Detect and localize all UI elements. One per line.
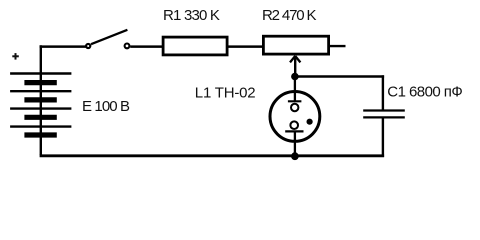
bottom rail wire: [40, 154, 385, 157]
battery thin plate 3: [10, 107, 71, 109]
wire stub right of R2: [329, 45, 346, 47]
potentiometer R2: [262, 7, 329, 77]
lamp top electrode bar: [288, 100, 302, 102]
switch blade: [91, 30, 127, 44]
switch right contact: [125, 44, 130, 49]
battery plus polarity mark: [12, 55, 18, 57]
lamp envelope circle: [270, 92, 320, 142]
svg-text:C1 6800 пФ: C1 6800 пФ: [387, 84, 462, 101]
R2 wiper arrowhead: [290, 56, 295, 62]
battery thick plate 1: [24, 80, 56, 85]
neon lamp L1: [195, 77, 320, 156]
lamp top electrode circle: [291, 104, 298, 111]
battery thick plate 3: [24, 115, 56, 120]
svg-text:L1 TH-02: L1 TH-02: [195, 85, 256, 102]
C1 bottom plate: [363, 116, 405, 118]
lamp bottom electrode circle: [290, 121, 298, 129]
battery center lead (through-line): [40, 45, 42, 155]
lamp bottom electrode bar: [285, 130, 303, 132]
switch left contact: [86, 44, 90, 48]
battery thick plate 2: [24, 97, 56, 102]
battery thin plate 1: [10, 72, 71, 74]
battery thick plate 4: [24, 132, 56, 137]
lamp bottom lead: [294, 131, 296, 155]
wire wiper node to capacitor branch: [295, 75, 384, 77]
switch S1: [86, 30, 129, 49]
battery thin plate 2: [10, 90, 71, 92]
svg-text:R1 330 K: R1 330 K: [163, 7, 220, 24]
battery E1: [10, 45, 130, 155]
wire capacitor to bottom rail: [382, 117, 384, 157]
node junction dot at wiper: [291, 73, 299, 81]
R2 wiper arrow stem: [294, 57, 296, 77]
svg-text:E 100 В: E 100 В: [82, 98, 130, 115]
svg-text:R2 470 K: R2 470 K: [262, 7, 316, 24]
battery thin plate 4: [10, 125, 71, 127]
wire switch to R1: [130, 45, 163, 48]
lamp top lead: [294, 77, 296, 102]
wire R1 to R2: [227, 45, 263, 48]
lamp gas indicator dot: [307, 119, 313, 125]
node junction dot at bottom rail: [291, 152, 299, 160]
wire down to capacitor C1: [382, 75, 384, 110]
C1 top plate: [363, 109, 405, 111]
capacitor C1: [363, 84, 462, 118]
wire battery top to switch: [40, 45, 87, 48]
resistor R1: [163, 7, 227, 55]
